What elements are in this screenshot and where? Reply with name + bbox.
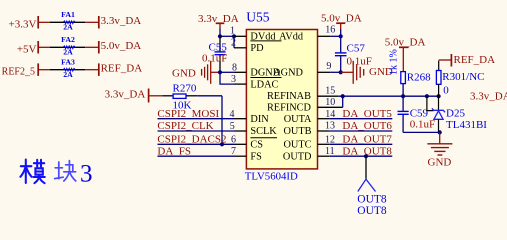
svg-text:OUTB: OUTB — [283, 126, 311, 137]
svg-text:6: 6 — [231, 134, 236, 145]
svg-text:+5V: +5V — [17, 43, 37, 55]
wire — [39, 69, 50, 71]
node row wire — [339, 95, 439, 97]
svg-text:C57: C57 — [347, 42, 366, 54]
svg-text:0.1uF: 0.1uF — [410, 119, 435, 131]
pin 13 — [318, 130, 330, 132]
wire — [198, 95, 222, 97]
svg-text:REFINAB: REFINAB — [267, 91, 311, 102]
svg-text:CS: CS — [250, 140, 263, 151]
svg-text:2A: 2A — [63, 48, 73, 57]
svg-text:DA_OUT7: DA_OUT7 — [342, 133, 392, 145]
pin 9 — [318, 71, 331, 73]
junction D25 ref — [425, 94, 429, 98]
svg-text:GND: GND — [172, 67, 196, 79]
svg-text:AVdd: AVdd — [279, 32, 304, 43]
svg-text:FA1: FA1 — [61, 10, 75, 19]
svg-text:13: 13 — [325, 121, 335, 132]
svg-text:OUTD: OUTD — [283, 151, 312, 162]
svg-text:0.1uF: 0.1uF — [202, 52, 227, 64]
junction R268/C59 — [401, 94, 405, 98]
capacitor C59 — [402, 96, 404, 111]
junction pins 15/10 — [341, 94, 345, 98]
wire — [85, 69, 99, 71]
bottom rail — [403, 131, 440, 133]
pin 14 — [318, 118, 330, 120]
IC U55 body — [246, 30, 317, 169]
svg-text:OUTA: OUTA — [284, 114, 312, 125]
svg-text:R268: R268 — [407, 72, 431, 84]
wire — [39, 21, 50, 23]
wire to OUT8 port — [365, 156, 367, 179]
svg-text:TLV5604ID: TLV5604ID — [245, 171, 298, 183]
pin 3 — [235, 83, 247, 85]
pin 1 — [234, 35, 246, 37]
junction — [218, 70, 222, 74]
wire pin10 riser — [342, 96, 344, 107]
svg-text:15: 15 — [325, 85, 335, 96]
diode D25 TL431 — [438, 96, 440, 110]
ground GND right of C57 — [341, 71, 353, 73]
svg-text:FA2: FA2 — [61, 35, 75, 44]
resistor R268 — [401, 72, 406, 84]
svg-text:CSPI2_MOSI: CSPI2_MOSI — [157, 108, 219, 120]
pin 8 — [235, 71, 247, 73]
svg-text:16: 16 — [325, 24, 335, 35]
wire — [85, 21, 99, 23]
svg-text:1: 1 — [230, 26, 235, 37]
fuse FA2 — [63, 46, 75, 49]
svg-text:9: 9 — [326, 61, 331, 72]
svg-text:DIN: DIN — [250, 114, 269, 125]
svg-text:GND: GND — [428, 156, 452, 168]
svg-text:R301/NC: R301/NC — [442, 71, 484, 83]
svg-text:CSPI2_CLK: CSPI2_CLK — [157, 120, 213, 132]
svg-text:REF_DA: REF_DA — [101, 62, 143, 74]
pin 11 — [318, 155, 330, 157]
svg-text:3: 3 — [231, 74, 236, 85]
svg-text:10: 10 — [325, 97, 335, 108]
junction R301/D25 — [437, 94, 441, 98]
capacitor C55 — [219, 36, 221, 51]
svg-text:DA_FS: DA_FS — [157, 145, 191, 157]
svg-text:8: 8 — [232, 62, 237, 73]
svg-text:DA_OUT5: DA_OUT5 — [342, 108, 392, 120]
svg-text:FA3: FA3 — [61, 57, 75, 66]
wire — [85, 46, 99, 48]
pin 5 — [235, 130, 247, 132]
svg-text:5: 5 — [230, 121, 235, 132]
svg-text:SCLK: SCLK — [250, 126, 277, 137]
wire — [211, 71, 221, 73]
wire — [219, 29, 221, 37]
svg-text:D25: D25 — [446, 108, 465, 120]
svg-text:11: 11 — [325, 146, 335, 157]
pin 2 — [233, 36, 235, 48]
svg-text:CSPI2_DACS2: CSPI2_DACS2 — [157, 133, 226, 145]
svg-text:2A: 2A — [63, 23, 73, 32]
pin 10 — [318, 106, 343, 108]
svg-text:1k 1%: 1k 1% — [388, 49, 399, 75]
pin 16 — [318, 35, 331, 37]
capacitor C57 — [340, 36, 342, 52]
svg-text:+3.3V: +3.3V — [9, 18, 37, 30]
svg-text:R270: R270 — [173, 83, 197, 95]
node junction — [218, 34, 222, 38]
svg-text:OUT8: OUT8 — [357, 194, 387, 206]
svg-text:3.3v_DA: 3.3v_DA — [470, 91, 507, 103]
svg-text:3.3v_DA: 3.3v_DA — [101, 15, 142, 27]
svg-text:OUT8: OUT8 — [357, 205, 387, 217]
TL431 ref wire — [427, 96, 434, 110]
wire — [340, 29, 342, 36]
svg-text:TL431BI: TL431BI — [446, 119, 487, 131]
wire to pin8 — [220, 71, 235, 73]
label 模块3 (drawn strokes) — [20, 160, 44, 184]
pin 12 — [318, 143, 330, 145]
pin 4 — [235, 118, 247, 120]
svg-text:5.0v_DA: 5.0v_DA — [101, 40, 142, 52]
pin 6 — [235, 143, 247, 145]
svg-text:FS: FS — [250, 151, 262, 162]
svg-text:PD: PD — [250, 43, 264, 54]
resistor R301 — [438, 61, 440, 71]
svg-text:REF_DA: REF_DA — [454, 54, 496, 66]
svg-text:4: 4 — [230, 109, 235, 120]
fuse FA1 — [63, 21, 75, 24]
wire — [402, 84, 404, 97]
wire — [39, 46, 50, 48]
svg-text:U55: U55 — [246, 10, 269, 25]
pin 7 — [235, 155, 247, 157]
pin 15 — [318, 95, 339, 97]
ground GND earth — [439, 132, 441, 143]
svg-text:0: 0 — [443, 85, 449, 97]
svg-text:LDAC: LDAC — [250, 79, 278, 90]
svg-text:REFINCD: REFINCD — [267, 102, 312, 113]
svg-text:REF2_5: REF2_5 — [2, 67, 35, 78]
svg-text:DA_OUT6: DA_OUT6 — [342, 120, 392, 132]
svg-text:2A: 2A — [63, 70, 73, 79]
port OUT8 chevron — [358, 179, 376, 191]
fuse FA3 — [63, 68, 75, 71]
svg-text:AGND: AGND — [273, 68, 303, 79]
wire LDAC hook — [220, 72, 235, 84]
svg-text:OUTC: OUTC — [283, 140, 311, 151]
port REF_DA — [439, 59, 452, 61]
svg-text:3.3v_DA: 3.3v_DA — [105, 89, 146, 101]
svg-text:2: 2 — [231, 38, 236, 49]
svg-text:3: 3 — [80, 161, 93, 188]
wire pin9 to C57 — [330, 71, 341, 73]
svg-text:7: 7 — [231, 146, 236, 157]
